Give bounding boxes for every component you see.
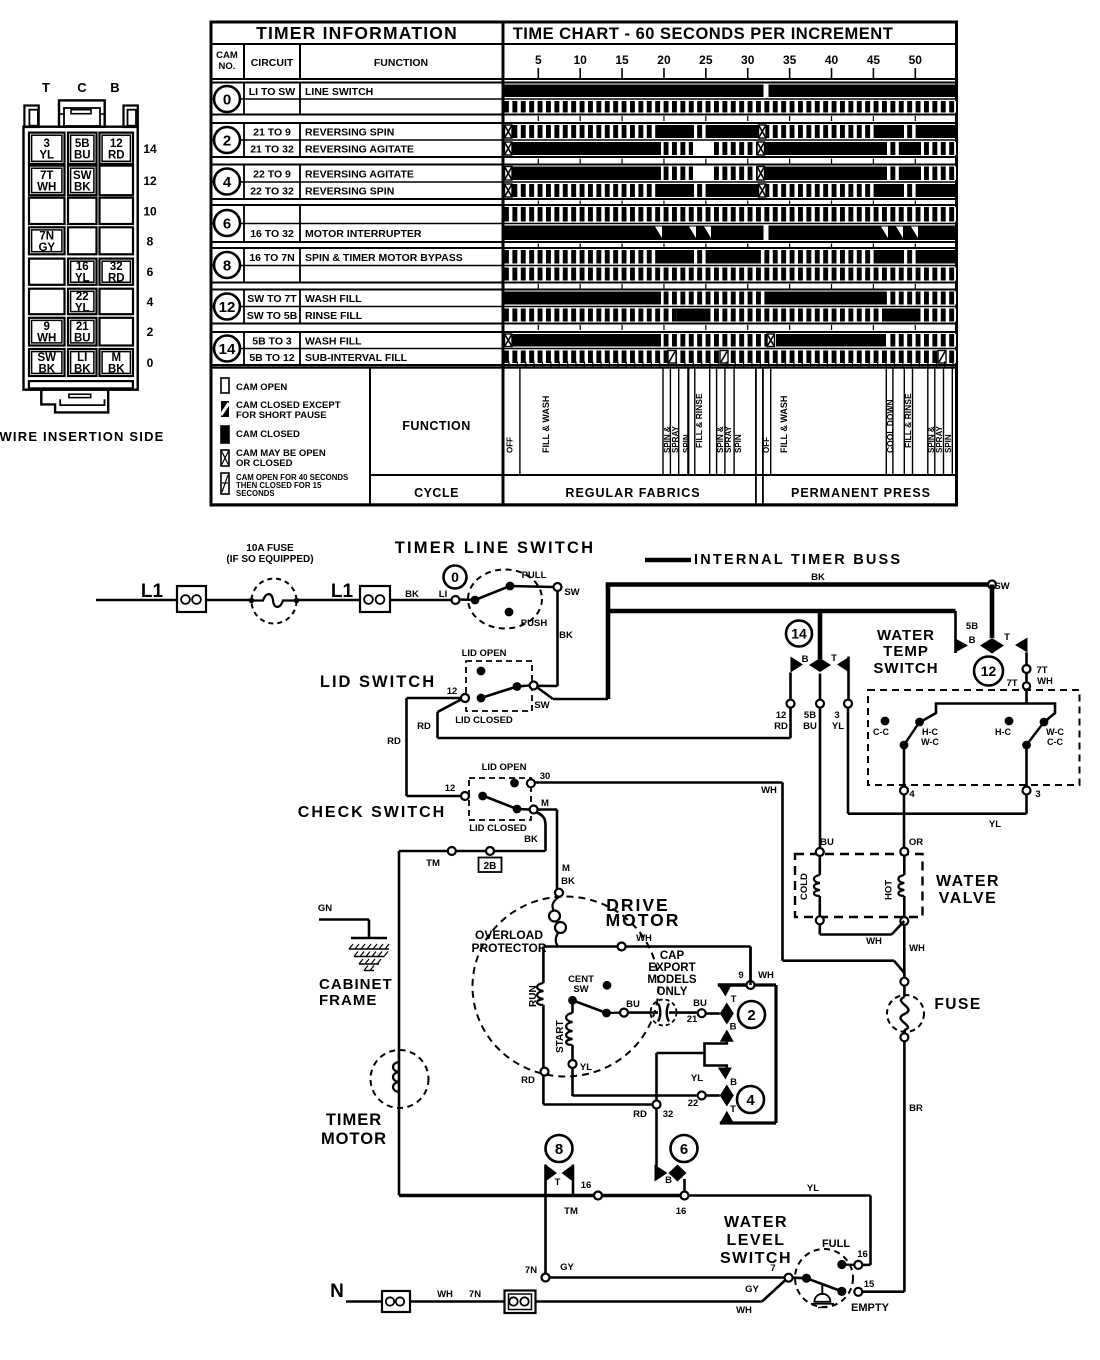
svg-text:30: 30 xyxy=(540,771,551,782)
bus wire to lid switch xyxy=(553,698,608,701)
node 12 (check switch) xyxy=(407,795,462,798)
node 16 (cam6) xyxy=(681,1192,689,1200)
svg-text:40: 40 xyxy=(825,53,839,67)
svg-text:SPIN: SPIN xyxy=(734,434,743,453)
svg-text:FUSE: FUSE xyxy=(934,996,981,1013)
svg-text:WH: WH xyxy=(37,333,56,345)
connector plug 2 xyxy=(360,586,390,612)
wire RD to check/lid switch xyxy=(789,708,792,738)
svg-text:WH: WH xyxy=(761,785,777,796)
svg-text:COLD: COLD xyxy=(799,873,810,900)
svg-text:L1: L1 xyxy=(331,581,354,602)
svg-text:12: 12 xyxy=(445,783,456,794)
hot coil xyxy=(903,856,906,875)
svg-text:M: M xyxy=(562,863,570,874)
svg-text:SPIN: SPIN xyxy=(682,434,691,453)
svg-text:FOR SHORT PAUSE: FOR SHORT PAUSE xyxy=(236,410,327,421)
svg-text:RD: RD xyxy=(108,149,125,161)
svg-text:WIRE INSERTION SIDE: WIRE INSERTION SIDE xyxy=(0,429,165,444)
svg-text:10A FUSE: 10A FUSE xyxy=(246,543,294,554)
wire BU down to water valve xyxy=(819,708,822,848)
svg-text:MOTOR: MOTOR xyxy=(321,1130,387,1148)
svg-text:CAM: CAM xyxy=(216,50,238,61)
svg-text:14: 14 xyxy=(219,341,236,358)
svg-text:LI TO SW: LI TO SW xyxy=(249,86,296,98)
svg-text:2: 2 xyxy=(223,132,231,149)
overload protector xyxy=(552,897,559,910)
node 7 xyxy=(785,1274,793,1282)
legend + function/cycle section xyxy=(211,368,957,505)
svg-text:BK: BK xyxy=(74,364,91,376)
wire YL to node 22 xyxy=(571,1068,574,1096)
node M xyxy=(530,806,538,814)
svg-text:12: 12 xyxy=(776,710,787,721)
svg-text:0: 0 xyxy=(147,356,154,370)
svg-text:16 TO 7N: 16 TO 7N xyxy=(249,252,294,264)
svg-text:RINSE FILL: RINSE FILL xyxy=(305,310,363,322)
svg-text:BK: BK xyxy=(405,589,419,600)
branch to node 32 xyxy=(657,1052,705,1055)
node 30 xyxy=(527,779,535,787)
svg-text:0: 0 xyxy=(223,91,231,108)
svg-text:YL: YL xyxy=(39,149,54,161)
svg-text:WASH FILL: WASH FILL xyxy=(305,335,362,347)
svg-text:C: C xyxy=(77,80,87,95)
svg-text:RD: RD xyxy=(521,1075,535,1086)
svg-text:50: 50 xyxy=(909,53,923,67)
svg-text:GY: GY xyxy=(38,242,55,254)
node SW (timer line switch output) xyxy=(554,583,562,591)
svg-text:W-C: W-C xyxy=(1046,727,1064,737)
svg-text:TIMER LINE SWITCH: TIMER LINE SWITCH xyxy=(395,539,596,557)
svg-text:FUNCTION: FUNCTION xyxy=(402,419,471,433)
ground symbol (cabinet frame) xyxy=(351,937,387,940)
wire BR down xyxy=(903,1041,906,1291)
svg-text:N: N xyxy=(330,1281,344,1302)
svg-text:M: M xyxy=(111,352,121,364)
svg-text:YL: YL xyxy=(691,1073,703,1084)
svg-text:15: 15 xyxy=(615,53,629,67)
node 4 xyxy=(900,787,908,795)
svg-text:22 TO 9: 22 TO 9 xyxy=(253,168,291,180)
svg-text:BU: BU xyxy=(820,837,834,848)
svg-text:C-C: C-C xyxy=(1047,737,1063,747)
svg-text:OFF: OFF xyxy=(506,437,515,453)
svg-text:T: T xyxy=(1004,632,1010,643)
wire BK to timer line switch xyxy=(390,599,451,602)
svg-text:OR CLOSED: OR CLOSED xyxy=(236,458,293,469)
water valve xyxy=(795,854,923,917)
svg-text:WH: WH xyxy=(37,181,56,193)
node 9 WH xyxy=(718,983,747,987)
svg-text:32: 32 xyxy=(110,261,123,273)
svg-text:NO.: NO. xyxy=(219,61,236,72)
svg-text:RD: RD xyxy=(633,1109,647,1120)
node 12 RD xyxy=(789,673,792,700)
svg-text:RUN: RUN xyxy=(528,985,539,1007)
svg-text:RD: RD xyxy=(774,721,788,732)
svg-text:BU: BU xyxy=(626,999,640,1010)
wire WH joining valves xyxy=(818,924,821,934)
wire fuse to L1 label 2 xyxy=(297,599,360,602)
svg-text:TIMER: TIMER xyxy=(326,1111,382,1129)
svg-text:WATER: WATER xyxy=(724,1214,788,1231)
wire M BK down to overload xyxy=(537,808,557,811)
cam switch 14 xyxy=(786,621,812,647)
svg-text:15: 15 xyxy=(864,1279,875,1290)
svg-text:WH: WH xyxy=(909,943,925,954)
svg-text:EMPTY: EMPTY xyxy=(851,1302,890,1314)
svg-text:SW TO 7T: SW TO 7T xyxy=(247,293,297,305)
svg-text:REVERSING AGITATE: REVERSING AGITATE xyxy=(305,168,414,180)
node 3 YL xyxy=(847,657,850,700)
svg-text:LEVEL: LEVEL xyxy=(726,1232,785,1249)
node 3 xyxy=(1023,787,1031,795)
wire TM branch from M xyxy=(536,812,546,851)
bus BK horizontal (to SW node right) xyxy=(606,582,992,587)
W-C C-C switch xyxy=(1040,718,1049,727)
svg-text:LI: LI xyxy=(439,589,447,600)
svg-text:7: 7 xyxy=(770,1263,775,1274)
wire to water level switch xyxy=(536,1300,763,1303)
node BU (cent sw) xyxy=(620,1009,628,1017)
svg-text:H-C: H-C xyxy=(922,727,938,737)
node 16 TM xyxy=(594,1192,602,1200)
svg-text:T: T xyxy=(831,653,837,664)
node L1 xyxy=(452,596,460,604)
svg-text:7N: 7N xyxy=(469,1289,481,1300)
svg-text:BK: BK xyxy=(74,181,91,193)
svg-text:LID SWITCH: LID SWITCH xyxy=(320,673,436,691)
svg-text:T: T xyxy=(555,1177,561,1188)
svg-text:SPIN: SPIN xyxy=(944,434,953,453)
svg-text:SPRAY: SPRAY xyxy=(724,426,733,453)
svg-text:3: 3 xyxy=(834,710,839,721)
svg-text:GN: GN xyxy=(318,903,332,914)
svg-text:16 TO 32: 16 TO 32 xyxy=(250,228,294,240)
svg-text:12: 12 xyxy=(981,663,997,679)
svg-text:12: 12 xyxy=(143,174,157,188)
node SW (top right) xyxy=(988,581,996,589)
node 7N xyxy=(542,1274,550,1282)
node 22 xyxy=(698,1092,706,1100)
fuse xyxy=(900,978,908,986)
svg-text:BK: BK xyxy=(559,630,573,641)
svg-text:SPRAY: SPRAY xyxy=(935,426,944,453)
svg-text:REVERSING AGITATE: REVERSING AGITATE xyxy=(305,144,414,156)
svg-text:2: 2 xyxy=(747,1007,755,1024)
svg-text:16: 16 xyxy=(581,1180,592,1191)
svg-text:20: 20 xyxy=(657,53,671,67)
svg-text:MOTOR: MOTOR xyxy=(606,910,681,930)
svg-text:START: START xyxy=(555,1020,566,1053)
connector plug 1 xyxy=(177,586,206,612)
svg-text:LINE SWITCH: LINE SWITCH xyxy=(305,86,373,98)
svg-text:SW: SW xyxy=(573,984,588,995)
svg-text:CHECK SWITCH: CHECK SWITCH xyxy=(298,804,446,821)
svg-text:5B: 5B xyxy=(966,621,978,632)
full contact xyxy=(837,1260,846,1269)
water temp switch box xyxy=(868,690,1080,785)
node WH (motor top) xyxy=(618,943,626,951)
bus 2 horizontal y=611 xyxy=(608,609,956,614)
svg-text:LID CLOSED: LID CLOSED xyxy=(469,823,527,834)
svg-text:7N: 7N xyxy=(39,230,54,242)
svg-text:WH: WH xyxy=(1037,676,1053,687)
svg-text:FUNCTION: FUNCTION xyxy=(374,57,428,69)
svg-text:SECONDS: SECONDS xyxy=(236,489,275,498)
svg-text:5B TO 3: 5B TO 3 xyxy=(252,335,292,347)
svg-text:SW: SW xyxy=(37,352,56,364)
svg-text:B: B xyxy=(730,1077,737,1088)
svg-text:LID OPEN: LID OPEN xyxy=(482,762,527,773)
wire down to timer motor xyxy=(398,851,401,1196)
svg-text:4: 4 xyxy=(223,174,232,191)
wire YL to water level switch xyxy=(689,1194,871,1197)
svg-text:WATER: WATER xyxy=(936,873,1000,890)
svg-text:5: 5 xyxy=(535,53,542,67)
svg-text:SW: SW xyxy=(564,587,579,598)
wire WH: node 30 right and down to fuse xyxy=(535,781,783,784)
node 7T WH xyxy=(1023,682,1030,689)
svg-text:ONLY: ONLY xyxy=(657,986,688,998)
svg-text:RD: RD xyxy=(417,721,431,732)
cam switch 8 xyxy=(546,1135,573,1162)
wire YL from node 3 xyxy=(1025,795,1028,814)
svg-text:B: B xyxy=(969,635,976,646)
internal feed rail xyxy=(1025,690,1028,704)
svg-text:PROTECTOR: PROTECTOR xyxy=(471,941,546,955)
svg-text:7T: 7T xyxy=(1036,665,1047,676)
svg-text:4: 4 xyxy=(746,1092,755,1109)
svg-text:WH: WH xyxy=(736,1305,752,1316)
svg-text:BK: BK xyxy=(811,572,825,583)
svg-text:CAP: CAP xyxy=(660,950,685,962)
svg-text:YL: YL xyxy=(807,1183,819,1194)
node 5B BU xyxy=(819,674,822,700)
svg-text:BR: BR xyxy=(909,1103,923,1114)
svg-text:TIME CHART - 60 SECONDS PER IN: TIME CHART - 60 SECONDS PER INCREMENT xyxy=(513,25,894,43)
svg-text:B: B xyxy=(665,1175,672,1186)
svg-text:BK: BK xyxy=(38,364,55,376)
svg-text:SW TO 5B: SW TO 5B xyxy=(247,310,298,322)
svg-text:6: 6 xyxy=(680,1141,688,1158)
svg-text:WH: WH xyxy=(758,970,774,981)
svg-text:CIRCUIT: CIRCUIT xyxy=(251,57,294,69)
svg-text:21 TO 32: 21 TO 32 xyxy=(250,144,294,156)
svg-text:WH: WH xyxy=(866,936,882,947)
svg-text:LID CLOSED: LID CLOSED xyxy=(455,715,513,726)
svg-text:B: B xyxy=(110,80,119,95)
svg-text:W-C: W-C xyxy=(921,737,939,747)
pendulum xyxy=(821,1284,823,1295)
svg-text:16: 16 xyxy=(76,261,89,273)
svg-text:8: 8 xyxy=(223,257,231,274)
svg-text:FRAME: FRAME xyxy=(319,992,377,1009)
svg-text:FULL: FULL xyxy=(822,1238,850,1250)
svg-text:REVERSING SPIN: REVERSING SPIN xyxy=(305,127,394,139)
svg-text:GY: GY xyxy=(560,1262,574,1273)
wire WH rail right of cams xyxy=(755,983,777,986)
svg-text:SW: SW xyxy=(994,581,1009,592)
svg-text:22: 22 xyxy=(76,291,89,303)
svg-text:VALVE: VALVE xyxy=(939,890,997,907)
C-C contact xyxy=(881,717,890,726)
svg-text:HOT: HOT xyxy=(884,880,895,900)
svg-text:T: T xyxy=(42,80,50,95)
svg-text:B: B xyxy=(730,1022,737,1033)
svg-text:REVERSING SPIN: REVERSING SPIN xyxy=(305,186,394,198)
svg-text:FILL & RINSE: FILL & RINSE xyxy=(694,393,704,448)
empty node xyxy=(854,1288,862,1296)
svg-text:M: M xyxy=(541,798,549,809)
motor box xyxy=(543,945,750,948)
svg-text:WASH FILL: WASH FILL xyxy=(305,293,362,305)
svg-text:12: 12 xyxy=(110,138,123,150)
svg-text:WH: WH xyxy=(437,1289,453,1300)
svg-text:SUB-INTERVAL FILL: SUB-INTERVAL FILL xyxy=(305,352,408,364)
main rail y=1195.5 xyxy=(399,1194,685,1197)
node TM xyxy=(448,847,456,855)
svg-text:8: 8 xyxy=(147,234,154,248)
wire WH 7N xyxy=(410,1300,505,1303)
svg-text:LI: LI xyxy=(77,352,87,364)
svg-text:16: 16 xyxy=(676,1206,687,1217)
svg-text:GY: GY xyxy=(745,1284,759,1295)
svg-text:SW: SW xyxy=(73,170,92,182)
wire RD from lid switch node 12 xyxy=(407,697,462,700)
svg-text:BU: BU xyxy=(74,149,91,161)
svg-text:30: 30 xyxy=(741,53,755,67)
svg-text:14: 14 xyxy=(791,626,807,642)
svg-text:SWITCH: SWITCH xyxy=(720,1250,792,1267)
svg-text:6: 6 xyxy=(147,265,154,279)
svg-text:10: 10 xyxy=(574,53,588,67)
svg-text:BK: BK xyxy=(561,876,575,887)
svg-text:BK: BK xyxy=(524,834,538,845)
svg-text:FILL & WASH: FILL & WASH xyxy=(541,396,551,453)
start winding xyxy=(571,1000,574,1013)
svg-text:PULL: PULL xyxy=(522,570,547,581)
svg-text:TM: TM xyxy=(564,1206,578,1217)
svg-text:25: 25 xyxy=(699,53,713,67)
svg-text:MOTOR INTERRUPTER: MOTOR INTERRUPTER xyxy=(305,228,422,240)
svg-text:22 TO 32: 22 TO 32 xyxy=(250,186,294,198)
svg-text:RD: RD xyxy=(387,736,401,747)
svg-text:SW: SW xyxy=(534,700,549,711)
svg-text:YL: YL xyxy=(75,302,90,314)
svg-text:TEMP: TEMP xyxy=(883,643,929,660)
svg-text:FILL & WASH: FILL & WASH xyxy=(779,396,789,453)
svg-text:OVERLOAD: OVERLOAD xyxy=(475,928,543,942)
node 32 xyxy=(653,1101,661,1109)
svg-text:10: 10 xyxy=(143,204,157,218)
svg-text:CYCLE: CYCLE xyxy=(414,486,459,500)
svg-text:9: 9 xyxy=(44,321,50,333)
svg-text:YL: YL xyxy=(580,1062,592,1073)
svg-text:BU: BU xyxy=(803,721,817,732)
svg-text:SWITCH: SWITCH xyxy=(873,660,938,677)
svg-text:H-C: H-C xyxy=(995,727,1011,737)
svg-text:RD: RD xyxy=(108,273,125,285)
svg-text:7T: 7T xyxy=(40,170,53,182)
svg-text:5B: 5B xyxy=(75,138,90,150)
wire OR from node 4 xyxy=(903,795,906,849)
wire SW down to cam 12 xyxy=(990,585,995,639)
svg-text:T: T xyxy=(730,1104,736,1115)
svg-text:(IF SO EQUIPPED): (IF SO EQUIPPED) xyxy=(226,554,313,565)
svg-text:BU: BU xyxy=(693,998,707,1009)
cam switch 2 xyxy=(718,985,732,997)
node YL (start) xyxy=(569,1060,577,1068)
arm to empty xyxy=(793,1276,807,1279)
svg-text:32: 32 xyxy=(663,1109,674,1120)
node SW (lid switch) xyxy=(538,684,558,687)
svg-text:14: 14 xyxy=(143,142,157,156)
connector plug N2 xyxy=(505,1291,536,1314)
svg-text:4: 4 xyxy=(909,789,915,800)
svg-text:22: 22 xyxy=(688,1098,699,1109)
svg-text:B: B xyxy=(802,654,809,665)
svg-text:21: 21 xyxy=(76,321,89,333)
timer motor xyxy=(371,1050,429,1108)
svg-text:WH: WH xyxy=(636,933,652,944)
cam switch 4 xyxy=(718,1068,732,1080)
wire YL (3) down xyxy=(847,708,850,814)
svg-text:T: T xyxy=(731,994,737,1005)
svg-text:CABINET: CABINET xyxy=(319,976,393,993)
svg-text:TIMER INFORMATION: TIMER INFORMATION xyxy=(256,23,458,43)
svg-text:LID OPEN: LID OPEN xyxy=(462,648,507,659)
node 21 xyxy=(698,1009,706,1017)
svg-text:21 TO 9: 21 TO 9 xyxy=(253,127,291,139)
svg-text:PERMANENT PRESS: PERMANENT PRESS xyxy=(791,486,931,500)
svg-text:16: 16 xyxy=(857,1249,868,1260)
drive motor dashed circle xyxy=(473,897,659,1077)
wire cam2 B to cam4 T zigzag xyxy=(705,1042,727,1068)
node 7T xyxy=(1025,653,1028,666)
node 2B xyxy=(486,847,494,855)
svg-text:3: 3 xyxy=(44,138,50,150)
node RD (motor left) xyxy=(541,1068,549,1076)
svg-text:SPRAY: SPRAY xyxy=(671,426,680,453)
node (cold bottom) xyxy=(816,916,824,924)
svg-text:YL: YL xyxy=(832,721,844,732)
svg-text:SPIN & TIMER MOTOR BYPASS: SPIN & TIMER MOTOR BYPASS xyxy=(305,252,463,264)
svg-text:21: 21 xyxy=(687,1014,698,1025)
svg-text:BU: BU xyxy=(74,333,91,345)
H-C W-C switch xyxy=(915,718,924,727)
wire connector to fuse xyxy=(206,599,252,602)
wire GY xyxy=(550,1276,786,1279)
svg-text:BK: BK xyxy=(108,364,125,376)
node 12 (lid switch) xyxy=(461,694,469,702)
svg-text:8: 8 xyxy=(555,1141,563,1158)
svg-text:WATER: WATER xyxy=(877,627,935,644)
svg-text:6: 6 xyxy=(223,215,231,232)
wire L1 to connector xyxy=(96,599,177,602)
svg-text:COOL DOWN: COOL DOWN xyxy=(885,399,895,453)
connector block (wire insertion side) xyxy=(0,80,165,444)
svg-text:5B TO 12: 5B TO 12 xyxy=(249,352,294,364)
node (hot bottom) xyxy=(900,917,908,925)
svg-text:4: 4 xyxy=(147,295,154,309)
timer information + time chart table xyxy=(211,22,957,505)
svg-text:CAM OPEN: CAM OPEN xyxy=(236,382,287,393)
bus vertical x=608 xyxy=(606,585,611,700)
svg-text:2B: 2B xyxy=(484,861,497,872)
svg-text:C-C: C-C xyxy=(873,727,889,737)
